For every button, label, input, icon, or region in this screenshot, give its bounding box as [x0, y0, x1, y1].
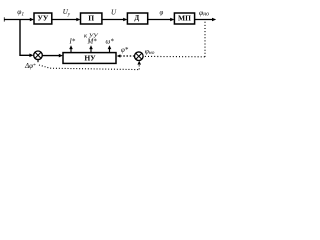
- wire branch vertical: [20, 20, 30, 56]
- wire S1 input arrowhead: [29, 54, 33, 58]
- wire UU to P: [52, 19, 77, 21]
- wire NU up arrow 2: [90, 48, 92, 52]
- summing junction S2: [135, 52, 144, 61]
- wire bottom dotted feedback: [39, 65, 139, 70]
- wire S1 bottom stub: [37, 60, 39, 63]
- block P: [81, 13, 102, 24]
- wire NU up arrow 3: [109, 48, 111, 52]
- block NU: [63, 53, 116, 64]
- svg-text:УУ: УУ: [37, 13, 49, 22]
- wire D to MP: [148, 19, 171, 21]
- wire S1 to NU: [42, 55, 59, 57]
- block UU: [34, 13, 52, 24]
- svg-text:ω*: ω*: [106, 39, 115, 46]
- block D: [127, 13, 147, 24]
- wire feedback dotted horizontal: [143, 55, 204, 57]
- svg-text:Д: Д: [134, 14, 139, 22]
- input tick: [3, 17, 5, 21]
- svg-text:M*: M*: [87, 39, 98, 46]
- svg-text:к УУ: к УУ: [84, 32, 99, 39]
- summing junction S1: [34, 51, 43, 60]
- background: [0, 0, 220, 74]
- wire S2 bottom dotted with arrow: [138, 64, 140, 69]
- svg-text:П: П: [88, 13, 94, 22]
- svg-text:Δφ*: Δφ*: [24, 62, 36, 70]
- wire S2 to NU dashed phi*: [120, 55, 134, 57]
- wire feedback dotted vertical: [204, 22, 206, 57]
- wire input to UU: [4, 19, 30, 21]
- svg-text:НУ: НУ: [84, 54, 96, 63]
- wire NU up arrow 1: [70, 48, 72, 52]
- svg-text:φ: φ: [160, 10, 164, 17]
- svg-text:φ*: φ*: [121, 47, 129, 54]
- svg-text:МП: МП: [178, 13, 191, 22]
- block MP: [174, 13, 194, 24]
- wire output: [195, 19, 213, 21]
- wire P to D: [102, 19, 124, 21]
- svg-text:I*: I*: [69, 39, 76, 46]
